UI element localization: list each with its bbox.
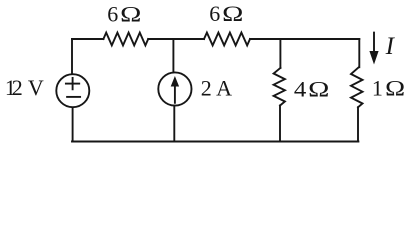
svg-text:1: 1 (372, 75, 383, 100)
svg-text:2 A: 2 A (201, 75, 232, 100)
svg-text:6: 6 (107, 1, 118, 26)
svg-text:Ω: Ω (120, 1, 141, 26)
svg-text:6: 6 (209, 1, 220, 26)
svg-text:4: 4 (294, 78, 307, 102)
svg-text:Ω: Ω (222, 1, 243, 26)
svg-text:Ω: Ω (308, 76, 329, 101)
svg-text:Ω: Ω (385, 76, 405, 100)
